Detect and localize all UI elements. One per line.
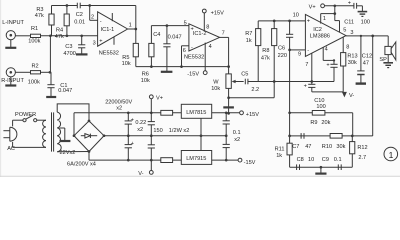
node C12 tap [360,35,362,37]
capacitor 0.22 lower [148,136,155,162]
svg-text:+: + [191,27,194,33]
svg-text:C11: C11 [344,20,354,26]
wire IC1-2 pin5 [151,25,189,27]
power -15V terminal (PSU out) [238,158,256,166]
svg-text:2: 2 [91,15,94,21]
ground (C3) [76,53,88,55]
wire feedback top (IC1-1) [52,5,78,7]
svg-text:2.7: 2.7 [358,155,366,161]
svg-text:4700: 4700 [63,51,75,57]
node R11 row2 [288,135,291,138]
svg-text:V+: V+ [309,5,316,11]
capacitor C11 100 [344,0,370,25]
wire plug bottom to primary [13,142,46,148]
resistor R6 10k [141,26,154,84]
wire -15 rail out [212,159,238,161]
svg-text:+15V: +15V [246,112,259,118]
svg-text:R-INPUT: R-INPUT [1,78,24,84]
capacitor C8 10 [297,157,315,170]
capacitor 0.1 upper [223,111,230,137]
svg-text:R10: R10 [322,144,332,150]
node R4 top [66,4,69,7]
svg-text:10k: 10k [122,61,131,67]
wire IC1-1 output [128,28,136,30]
wire regulator ground column [200,118,203,150]
svg-text:IC1-2: IC1-2 [193,31,207,37]
power amp IC2 LM3886 [293,13,346,58]
wire plug top to switch [12,120,14,126]
svg-text:10k: 10k [141,78,150,84]
ground (row4) [315,167,326,173]
svg-text:+: + [99,39,102,45]
wire output [346,35,388,37]
resistor R3 47k [35,6,54,36]
node output junction [371,35,374,38]
wire ground row4 [290,166,353,168]
power V- arrow [342,92,355,99]
transformer core [52,112,54,151]
wire bridge minus riser [73,113,75,136]
svg-text:C4: C4 [153,32,160,38]
regulator LM7915 [181,151,211,165]
wire mid ground rail [104,135,226,137]
svg-text:AC: AC [7,146,15,152]
svg-text:LM7815: LM7815 [186,110,206,116]
node pin2 branch [88,4,91,7]
svg-text:1: 1 [129,23,132,29]
node C4 top [166,24,169,27]
svg-text:R5: R5 [122,55,129,61]
svg-text:30k: 30k [336,144,345,150]
wire feedback dropdown [352,36,373,136]
svg-text:+15V: +15V [211,10,224,16]
wire switch to primary [37,119,46,121]
wire secondary top detour [57,104,89,121]
wire pin1/pin5 supply [321,6,354,36]
wire +15 rail out [212,112,240,114]
svg-text:9: 9 [298,51,301,57]
wire feedback row2 [290,135,353,137]
svg-text:3: 3 [350,30,353,36]
capacitor C5 2.2 [241,72,259,93]
ground (speaker) [383,63,393,68]
svg-text:LM3886: LM3886 [310,34,330,40]
svg-text:22000/50V: 22000/50V [105,99,132,105]
svg-text:47: 47 [305,144,311,150]
capacitor 22000u lower [125,136,134,162]
op-amp IC1-1 NE5532 [98,12,132,57]
wire center tap / ground [59,128,70,141]
L input jack J1 [2,20,24,40]
svg-text:x2: x2 [137,127,143,133]
capacitor C10 100 [304,82,326,110]
svg-text:100: 100 [361,20,370,26]
svg-text:30k: 30k [348,60,357,66]
svg-text:10: 10 [308,157,314,163]
svg-text:8: 8 [206,24,209,30]
svg-text:C6: C6 [278,46,285,52]
node R4 bottom [66,34,69,37]
svg-text:L-INPUT: L-INPUT [2,20,24,26]
svg-text:1: 1 [323,16,326,22]
node R8 top [273,20,276,23]
resistor R11 1k [275,143,293,167]
power switch [15,112,37,122]
wire LM3886 pin9 [290,49,306,51]
svg-text:+: + [326,62,329,68]
svg-text:1/2W x2: 1/2W x2 [169,128,190,134]
scan edge artifacts [0,176,400,177]
svg-text:-15V: -15V [187,72,199,78]
node R11 row1 [288,111,291,114]
svg-text:10k: 10k [211,86,220,92]
wire pot ground link [229,97,275,99]
capacitor 22000u upper [125,111,134,137]
wire V+ rail to C11 [325,5,354,7]
resistor R4 47k [55,6,69,40]
wire interstage bus [136,66,229,68]
svg-text:C2: C2 [76,12,83,18]
ground (C1) [46,96,56,98]
bridge rectifier 6A/200V x4 [67,120,105,168]
svg-text:R11: R11 [275,147,285,153]
svg-text:IC1-1: IC1-1 [101,27,115,33]
resistor R8 47k [261,21,277,98]
wire bridge bottom to rail [89,152,181,161]
resistor R7 1k [245,21,261,82]
svg-text:5: 5 [343,28,346,34]
R input jack J2 [1,68,24,84]
svg-text:1k: 1k [246,38,252,44]
capacitor C2 0.01 [74,3,85,26]
svg-text:C5: C5 [241,72,248,78]
svg-text:+: + [348,0,351,6]
ground (R jack) [5,77,16,86]
svg-text:0.01: 0.01 [74,20,85,26]
wire jack L to R1 [15,35,30,37]
node pin7/C10 on bus [310,80,313,83]
svg-text:220: 220 [278,53,287,59]
svg-text:47k: 47k [35,13,44,19]
resistor 150 upper [161,110,173,115]
op-amp IC1-2 NE5532 [184,24,220,61]
node R2/C1 junction [49,71,52,74]
node pin9 junction [288,49,291,52]
wire IC1-1 pin2 [90,6,98,21]
svg-text:R9: R9 [310,120,317,126]
potentiometer W 10k [211,67,231,92]
ground (L jack) [5,40,16,48]
speaker SP [379,36,395,63]
node +15V rail tap [227,112,230,115]
power V+ terminal (PSU) [149,95,163,113]
node pot ground [227,96,230,99]
wire pot bottom [228,88,230,113]
svg-text:x2: x2 [116,106,122,112]
svg-text:IC2: IC2 [313,27,322,33]
node pot top [227,65,230,68]
node row2 right junction [351,135,354,138]
wire LM3886 pin4 [323,47,334,61]
wire C10 to V- [312,91,343,93]
node summing junction [49,34,52,37]
node R6 bottom [150,65,153,68]
wire IC1-2 pin6 [182,46,189,67]
power +15V terminal (PSU out) [240,111,260,118]
svg-text:R6: R6 [142,72,149,78]
svg-text:5: 5 [184,21,187,27]
wire C2 to feedback node [80,5,136,7]
svg-text:C8: C8 [297,157,304,163]
svg-text:6A/200V x4: 6A/200V x4 [67,161,96,167]
power +15V terminal (IC1-2 pin8) [202,9,224,31]
ground (C12) [356,82,366,84]
node row4 ground [320,166,323,169]
node C6 top [288,20,291,23]
svg-text:1: 1 [389,150,394,160]
svg-text:10: 10 [293,13,299,19]
svg-text:R1: R1 [31,26,38,32]
wire LM3886 pin7 [305,53,312,82]
svg-text:-: - [307,48,309,54]
capacitor C1 0.047 [47,72,72,96]
wire R2 to node [41,71,52,73]
svg-text:3: 3 [93,40,96,46]
node C3 junction [80,34,83,37]
capacitor 0.1 lower [223,136,230,162]
regulator LM7815 [181,104,211,118]
capacitor C6 220 [278,21,294,59]
node V+ branch [333,4,336,7]
capacitor 0.22 upper [148,111,155,137]
wire R7/R8/C6 top [258,20,305,22]
resistor R2 100k [28,64,41,86]
ground (C11) [358,6,368,17]
svg-text:6: 6 [183,48,186,54]
page marker circled 1 [384,147,398,161]
svg-text:150: 150 [153,128,162,134]
svg-text:100: 100 [316,104,325,110]
svg-text:7: 7 [305,62,308,68]
resistor R10 30k [322,134,346,150]
svg-text:47k: 47k [261,56,270,62]
svg-text:C3: C3 [65,44,72,50]
label 150 1/2W x2 [153,128,189,134]
svg-text:0.1: 0.1 [233,130,241,136]
transformer T1 primary [43,120,46,147]
wiper arrow [232,80,244,83]
wire R1 to summing node [41,35,98,37]
svg-text:V+: V+ [156,96,163,102]
wire vertical L/R summing link [49,36,51,73]
capacitor C4 0.047 [153,26,181,71]
svg-text:R13: R13 [347,54,357,60]
wire feedback row1 [290,112,353,114]
resistor R12 2.7 [350,136,368,167]
svg-text:4: 4 [209,44,212,50]
wire jack R to R2 [15,71,30,73]
resistor R5 10k [122,29,139,67]
wire secondary bottom [57,151,89,153]
svg-text:R4: R4 [56,28,63,34]
wire ground bus [248,81,334,83]
resistor 150 lower [161,158,173,163]
label 0.22 x2 [135,120,146,133]
svg-text:NE5532: NE5532 [184,55,204,61]
node R8 bottom on bus [273,80,276,83]
svg-text:7: 7 [222,31,225,37]
power V- terminal (PSU) [138,160,153,177]
svg-text:-: - [100,19,102,25]
capacitor bypass (pin4) [326,60,337,81]
svg-text:R2: R2 [32,64,39,70]
svg-text:C7: C7 [292,144,299,150]
svg-text:0.1: 0.1 [334,157,342,163]
svg-text:0.22: 0.22 [135,120,146,126]
svg-text:2.2: 2.2 [251,87,259,93]
svg-text:R12: R12 [357,145,367,151]
svg-text:8: 8 [346,44,349,50]
AC plug [3,127,17,152]
svg-text:-15V: -15V [244,160,256,166]
svg-text:W: W [213,79,219,85]
resistor R9 20k [310,111,330,127]
power -15V terminal (IC1-2 pin4) [187,43,211,78]
svg-text:20k: 20k [321,120,330,126]
svg-text:R8: R8 [262,48,269,54]
svg-text:1k: 1k [276,153,282,159]
svg-text:100k: 100k [28,80,40,86]
svg-text:LM7915: LM7915 [186,156,206,162]
resistor R1 100k [28,26,40,44]
ground (pot) [223,106,234,108]
capacitor C9 0.1 [322,157,342,170]
svg-text:R3: R3 [36,7,43,13]
wire feedback column R11 [289,50,291,143]
wire IC1-2 output [220,37,229,66]
svg-text:+: + [304,83,307,89]
wire row1 to row2 [352,113,354,136]
svg-text:+: + [307,18,310,24]
wire feedback riser [135,6,137,30]
power V+ terminal [309,4,325,11]
svg-text:NE5532: NE5532 [99,51,119,57]
svg-text:V-: V- [349,93,354,99]
label 0.1 x2 [233,130,241,143]
svg-text:4: 4 [325,47,328,53]
svg-text:22Vx2: 22Vx2 [60,150,76,156]
transformer secondary 22Vx2 [57,112,75,156]
svg-text:C9: C9 [322,157,329,163]
capacitor C12 47 [357,36,372,83]
wire top rail [74,112,181,114]
capacitor C7 47 [292,133,311,150]
node IC1-1 output junction [134,28,137,31]
capacitor C3 4700 [63,36,85,57]
svg-text:C12: C12 [362,54,372,60]
label 22000/50V x2 [105,99,132,111]
node pin6 branch [180,65,183,68]
svg-text:0.047: 0.047 [58,88,72,94]
ground (C4) [161,71,173,73]
svg-text:x2: x2 [234,137,240,143]
svg-text:-: - [191,44,193,50]
svg-text:47: 47 [363,60,369,66]
svg-text:0.047: 0.047 [168,34,182,40]
svg-text:47k: 47k [55,34,64,40]
pin8 / resistor R13 30k [341,37,358,92]
svg-text:100k: 100k [28,39,40,45]
svg-text:R7: R7 [245,31,252,37]
node pin4 bypass junction [333,59,335,61]
